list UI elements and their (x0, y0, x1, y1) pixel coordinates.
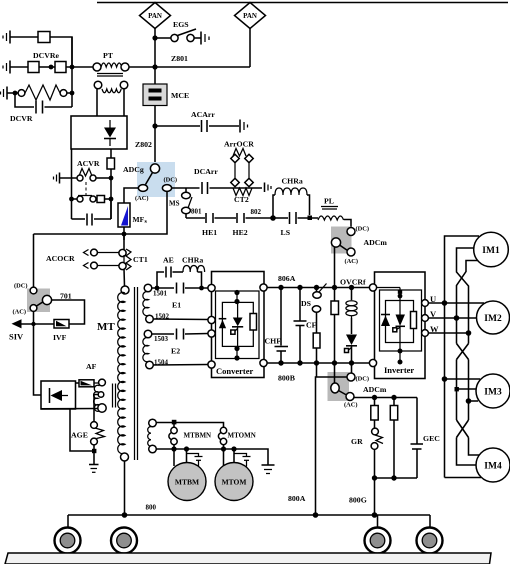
fuse MFs (118, 203, 148, 227)
svg-text:1503: 1503 (154, 335, 169, 343)
center link with junctions (236, 291, 238, 302)
svg-text:806A: 806A (278, 274, 296, 283)
current transformer CT2 on wire (233, 188, 262, 204)
changeover ADCm top (331, 226, 387, 266)
svg-text:CHRa: CHRa (282, 177, 303, 186)
svg-text:(AC): (AC) (135, 195, 149, 202)
capacitor CHF branch (265, 288, 289, 364)
switch ACVR row1 with zigzag (77, 169, 113, 182)
svg-text:IVF: IVF (53, 333, 67, 342)
ground G1 (3, 31, 38, 44)
MT core (134, 287, 136, 460)
svg-text:CHRa: CHRa (182, 256, 203, 265)
reactor + thyristor branch (345, 288, 358, 364)
svg-text:MTOM: MTOM (222, 478, 247, 487)
wire net 1503 (152, 333, 174, 335)
highlight box ADCg (137, 162, 175, 197)
relay ArrOCR (224, 140, 254, 187)
motor IM2 (477, 301, 510, 334)
wire: PT secondary drops into Z802 box (96, 89, 98, 116)
wire: taps into IM4 (469, 438, 480, 456)
switch GR with resistor (351, 428, 383, 478)
switch EGS (171, 20, 201, 42)
wire: bus verticals below UVW (444, 303, 446, 379)
svg-text:800B: 800B (278, 374, 295, 383)
wire: main bus through MCE down to ADCg (154, 106, 156, 165)
svg-text:ArrOCR: ArrOCR (224, 140, 254, 149)
ground G6 end of DCArr line (265, 183, 272, 193)
twist between IM2 and IM3 (457, 344, 469, 360)
svg-text:ACOCR: ACOCR (46, 254, 75, 263)
svg-text:802: 802 (251, 208, 262, 216)
svg-text:AE: AE (163, 256, 174, 265)
switch MS (169, 188, 192, 218)
pantograph PAN2 (235, 3, 266, 29)
ground G8 at AGE (89, 465, 99, 473)
transformer PT primary (93, 63, 129, 71)
wire: 800G down line (374, 478, 376, 515)
svg-text:(DC): (DC) (164, 177, 178, 184)
rectifier box AF (41, 381, 76, 409)
SECTION: inverter block (369, 272, 428, 379)
resistor brake 2 (390, 398, 397, 479)
resistor box DCVRe upper (38, 32, 50, 43)
wire: MS to HE chain (186, 217, 205, 219)
capacitor HE1 (202, 213, 236, 237)
resistor OVCRf (331, 288, 339, 364)
svg-text:AF: AF (86, 362, 97, 371)
svg-text:CT1: CT1 (133, 255, 148, 264)
wire: x72 drop to varistor row (71, 37, 73, 107)
wire: verticals below IM3 (444, 379, 446, 478)
svg-text:(DC): (DC) (14, 283, 28, 290)
wire: U phase (428, 302, 484, 304)
svg-text:CHF: CHF (265, 337, 282, 346)
motor IM3 (476, 374, 510, 408)
svg-text:U: U (430, 294, 436, 304)
transformer PT secondary (94, 81, 128, 93)
motor MTBM leads (173, 449, 175, 466)
frame capacitor MTOM (234, 454, 251, 467)
motor MTOM leads (223, 449, 225, 466)
auxiliary transformer AF (94, 379, 116, 412)
wire: AF bottom loop (70, 409, 93, 451)
svg-text:CF: CF (306, 321, 317, 330)
svg-text:(DC): (DC) (356, 376, 370, 383)
svg-text:(DC): (DC) (356, 226, 370, 233)
varistor DCVR (13, 85, 75, 100)
wire: wheel drops (67, 515, 69, 528)
wire: DC contact down and across y234 (34, 191, 168, 234)
dashed interlock line (85, 182, 87, 196)
svg-text:V: V (430, 309, 437, 319)
wire: AC contact to brake rail (354, 397, 417, 399)
capacitor HE2 (233, 213, 274, 237)
wire: V phase (428, 317, 477, 319)
inverter innermost box (386, 301, 414, 343)
wire net 1504 (153, 364, 208, 367)
wheel 3 (365, 528, 391, 554)
svg-text:IM3: IM3 (484, 388, 502, 398)
svg-text:PAN: PAN (243, 12, 257, 20)
capacitor CF branch (294, 288, 317, 364)
wire: U riser to IM1 (445, 236, 480, 303)
svg-text:MTOMN: MTOMN (228, 432, 256, 440)
ground G2 (3, 61, 28, 74)
svg-text:MT: MT (97, 321, 115, 333)
wire net 1501 (152, 287, 174, 289)
wire: brake bottom rail (375, 477, 418, 479)
svg-text:PAN: PAN (148, 12, 162, 20)
inverter feed IVF (53, 320, 69, 343)
capacitor DCVR branch (15, 93, 72, 114)
wire: PAN2 drop (249, 29, 251, 68)
svg-text:MTBMN: MTBMN (184, 432, 212, 440)
svg-text:ADCm: ADCm (364, 238, 388, 247)
svg-text:1504: 1504 (154, 359, 169, 367)
converter input terminals (208, 284, 215, 291)
svg-text:MF: MF (133, 215, 145, 224)
wire: V riser with twist to IM1 (457, 261, 479, 319)
wheel 4 (417, 528, 443, 554)
wire + junction dot (39, 66, 55, 68)
svg-text:ACArr: ACArr (191, 110, 215, 119)
switch DS + resistor branch (301, 284, 327, 364)
svg-text:E2: E2 (171, 347, 180, 356)
node: EGS tap junction (152, 35, 157, 40)
svg-text:800G: 800G (349, 496, 367, 505)
wire: main horizontal bus y67 PT to PAN2 (128, 66, 250, 68)
wire: return bus y515 (68, 514, 430, 516)
svg-text:E1: E1 (172, 301, 181, 310)
svg-text:SIV: SIV (9, 332, 24, 342)
resistor brake 1 (371, 398, 378, 429)
svg-text:(AC): (AC) (13, 309, 27, 316)
svg-text:HE1: HE1 (202, 228, 217, 237)
arrow to SIV (12, 319, 22, 328)
converter output terminals (260, 284, 267, 291)
node junction at PL input (308, 216, 313, 221)
svg-text:1501: 1501 (153, 290, 168, 298)
svg-text:HE2: HE2 (233, 228, 248, 237)
motor MTBM (168, 463, 206, 501)
wire: box to corner x72 (50, 37, 72, 67)
svg-text:GEC: GEC (423, 434, 440, 443)
svg-text:MCE: MCE (171, 91, 189, 100)
svg-text:Z802: Z802 (135, 140, 152, 149)
svg-text:1502: 1502 (155, 313, 170, 321)
diode in inverter (381, 315, 390, 327)
wire: DC- rail y363 (267, 362, 369, 364)
capacitor LS (273, 212, 318, 237)
wire: blower bottom bus (156, 449, 268, 465)
wire: W riser with twist to IM1 (457, 248, 476, 333)
GTO thyristor in converter (231, 302, 243, 349)
svg-text:DCVRe: DCVRe (33, 51, 60, 60)
svg-text:701: 701 (60, 292, 72, 301)
arrow element on AF output (76, 380, 95, 387)
wire: y188 run DC contact to DCArr (172, 187, 200, 189)
MT secondary winding E2 (1503-1504) (143, 330, 153, 369)
reactor PL (318, 197, 351, 228)
capacitor E2 (171, 329, 208, 356)
diode inside Z802 box (104, 120, 116, 146)
capacitor ACVR bottom (72, 199, 112, 226)
wire: taps into IM3 (442, 376, 448, 382)
switch MTOMN (218, 427, 255, 449)
arrester DCArr (194, 167, 233, 194)
frame capacitor MTBM (187, 454, 203, 467)
svg-text:W: W (430, 324, 439, 334)
wire net 1502 (153, 318, 208, 321)
SECTION: converter block (208, 272, 267, 378)
inverter DC input terminals (369, 284, 376, 291)
svg-text:MS: MS (169, 200, 180, 208)
svg-text:MTBM: MTBM (175, 478, 199, 487)
svg-text:DCVR: DCVR (10, 114, 33, 123)
wire: AF mid tap to AGE (94, 395, 98, 422)
converter innermost box (222, 302, 253, 346)
motor IM1 (474, 232, 509, 267)
wire: AC contact down through SIV line to AF (34, 311, 42, 395)
svg-text:Z801: Z801 (171, 54, 188, 63)
wire: overhead catenary line (97, 2, 508, 4)
node: ACArr tap (152, 123, 157, 128)
motor MTOM (215, 463, 253, 501)
svg-text:Inverter: Inverter (384, 365, 414, 375)
svg-text:DS: DS (301, 299, 311, 308)
grounding switch AGE (71, 422, 105, 464)
svg-text:CT2: CT2 (234, 195, 249, 204)
svg-text:LS: LS (281, 228, 291, 237)
rail bar (5, 553, 491, 564)
svg-text:ADCm: ADCm (363, 385, 387, 394)
svg-text:PT: PT (103, 51, 114, 60)
junction main bus / pan drop (152, 64, 157, 69)
switch ADCg (138, 164, 171, 192)
svg-text:800: 800 (146, 504, 157, 512)
resistor box DCVR left (28, 62, 39, 73)
junction at MFs bottom (122, 232, 127, 237)
filter reactor CHRa (parallel with LS) (273, 177, 310, 219)
capacitor E1 (172, 283, 208, 310)
ground G3 (1, 87, 18, 100)
svg-text:IM2: IM2 (484, 314, 502, 324)
converter inner box (216, 291, 260, 359)
wire: y234 bus down left side (33, 234, 35, 287)
wire: DC+ rail y287 (267, 287, 369, 289)
svg-text:(AC): (AC) (345, 258, 359, 265)
reactor feeding blower bus (148, 419, 157, 453)
junction dots on DC- rail (278, 360, 283, 365)
svg-text:OVCRf: OVCRf (340, 278, 366, 287)
motor IM4 (476, 448, 510, 482)
svg-text:IM1: IM1 (482, 246, 500, 256)
wire: left rail from Z802 box (71, 149, 73, 219)
wire: 800A line with DC tap (316, 377, 348, 515)
wire: W phase (428, 332, 471, 334)
switch ACVR row2 with box (69, 196, 113, 203)
circuit breaker MCE (143, 84, 189, 106)
resistor below Z802 diode (107, 149, 115, 219)
damping branch AE + CHRa (155, 256, 205, 291)
svg-text:AGE: AGE (71, 431, 88, 440)
switch 701 changeover (13, 283, 52, 316)
ground G11 right end (262, 465, 275, 474)
wire: MT return 800 (124, 461, 126, 515)
wire: PAN1 drop to main bus (154, 29, 156, 85)
svg-text:PL: PL (324, 197, 334, 206)
resistor in converter (250, 314, 257, 331)
svg-text:EGS: EGS (173, 20, 189, 29)
box: Z802 rectifier enclosure (71, 116, 127, 149)
svg-text:801: 801 (191, 208, 202, 216)
wire: 701 pivot loop to IVF (52, 300, 85, 324)
resistor in inverter (411, 312, 417, 329)
inverter inner box (380, 290, 422, 351)
inverter feed link (377, 287, 400, 289)
GTO thyristor in inverter (393, 301, 405, 344)
ground G7 at ACVR (54, 173, 78, 184)
relay ACOCR symbol (84, 249, 120, 269)
svg-text:800A: 800A (288, 494, 306, 503)
wire: MFs to cross junction y234 (123, 227, 125, 240)
pantograph PAN1 (140, 3, 171, 29)
wire: blower top bus (156, 423, 223, 428)
capacitor GEC (411, 398, 441, 479)
inverter phase terminals U V W (422, 300, 429, 307)
svg-text:ADCg: ADCg (123, 165, 144, 174)
wire: cross junction down to CT1 and MT (123, 234, 125, 250)
svg-text:(AC): (AC) (344, 402, 358, 409)
wire: ADCm pivot down to OVCRf rail (334, 247, 336, 287)
switch MTBMN (169, 427, 211, 449)
MT secondary winding E1 (1501-1502) (143, 284, 153, 323)
wire: AC contact to MFs (124, 188, 138, 203)
wire: to EGS (155, 37, 171, 39)
svg-text:GR: GR (351, 437, 363, 446)
diode in converter (219, 319, 227, 329)
twist between IM3 and IM4 (457, 420, 469, 438)
wheel 1 (55, 528, 81, 554)
transformer PT core (97, 73, 123, 75)
current transformer CT1 (119, 249, 148, 270)
svg-text:IM4: IM4 (484, 462, 502, 472)
node 802 junction (270, 215, 276, 221)
arrester ACArr (155, 110, 248, 133)
junction dots on DC+ rail (278, 285, 283, 290)
wire: IVF to SIV arrow (21, 323, 54, 325)
svg-text:ACVR: ACVR (77, 159, 100, 168)
wheel 2 (111, 528, 137, 554)
SECTION: ADCm bottom changeover (328, 363, 387, 409)
svg-text:DCArr: DCArr (194, 167, 218, 176)
resistor box DCVR right (55, 62, 66, 73)
MT primary winding (118, 286, 129, 461)
ground at EGS (201, 32, 209, 45)
svg-text:Converter: Converter (216, 366, 254, 376)
